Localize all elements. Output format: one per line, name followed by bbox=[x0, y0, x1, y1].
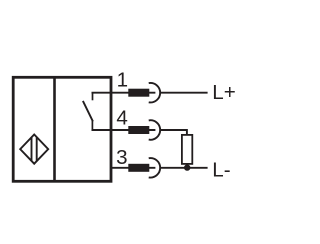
wire L- (pin 3 to label) bbox=[161, 167, 208, 169]
svg-text:1: 1 bbox=[117, 69, 128, 92]
svg-text:L-: L- bbox=[212, 159, 230, 182]
connector socket arc pin 4 bbox=[149, 120, 160, 140]
sensor body divider bbox=[53, 78, 56, 181]
wire pin 4 to load bbox=[161, 130, 187, 135]
wire pin4 (left segment through body edge to connector mouth) bbox=[92, 129, 156, 131]
ferrule pin 4 bbox=[128, 126, 149, 134]
ferrule pin 1 bbox=[128, 89, 149, 97]
diamond inner bar right bbox=[36, 138, 38, 161]
wire pin1 (left segment through body edge to connector mouth) bbox=[92, 92, 156, 94]
switch blade (open contact) bbox=[83, 101, 93, 122]
wire pin3 (body edge to connector mouth) bbox=[110, 167, 155, 169]
wire L+ (pin 1 to label) bbox=[161, 92, 208, 94]
svg-text:L+: L+ bbox=[212, 81, 235, 104]
sensor body outline bbox=[13, 77, 111, 181]
switch bottom lead bbox=[91, 121, 93, 130]
svg-text:4: 4 bbox=[116, 106, 127, 129]
diamond inner bar left bbox=[31, 138, 33, 161]
switch fixed contact hook bbox=[92, 93, 94, 101]
connector socket arc pin 1 bbox=[149, 83, 160, 103]
svg-text:3: 3 bbox=[116, 146, 127, 169]
proximity sensor symbol (diamond) bbox=[20, 135, 48, 164]
load resistor bottom lead bbox=[186, 164, 188, 168]
ferrule pin 3 bbox=[128, 164, 149, 172]
junction dot bbox=[184, 164, 190, 170]
load resistor bbox=[182, 135, 192, 164]
connector socket arc pin 3 bbox=[149, 158, 160, 178]
